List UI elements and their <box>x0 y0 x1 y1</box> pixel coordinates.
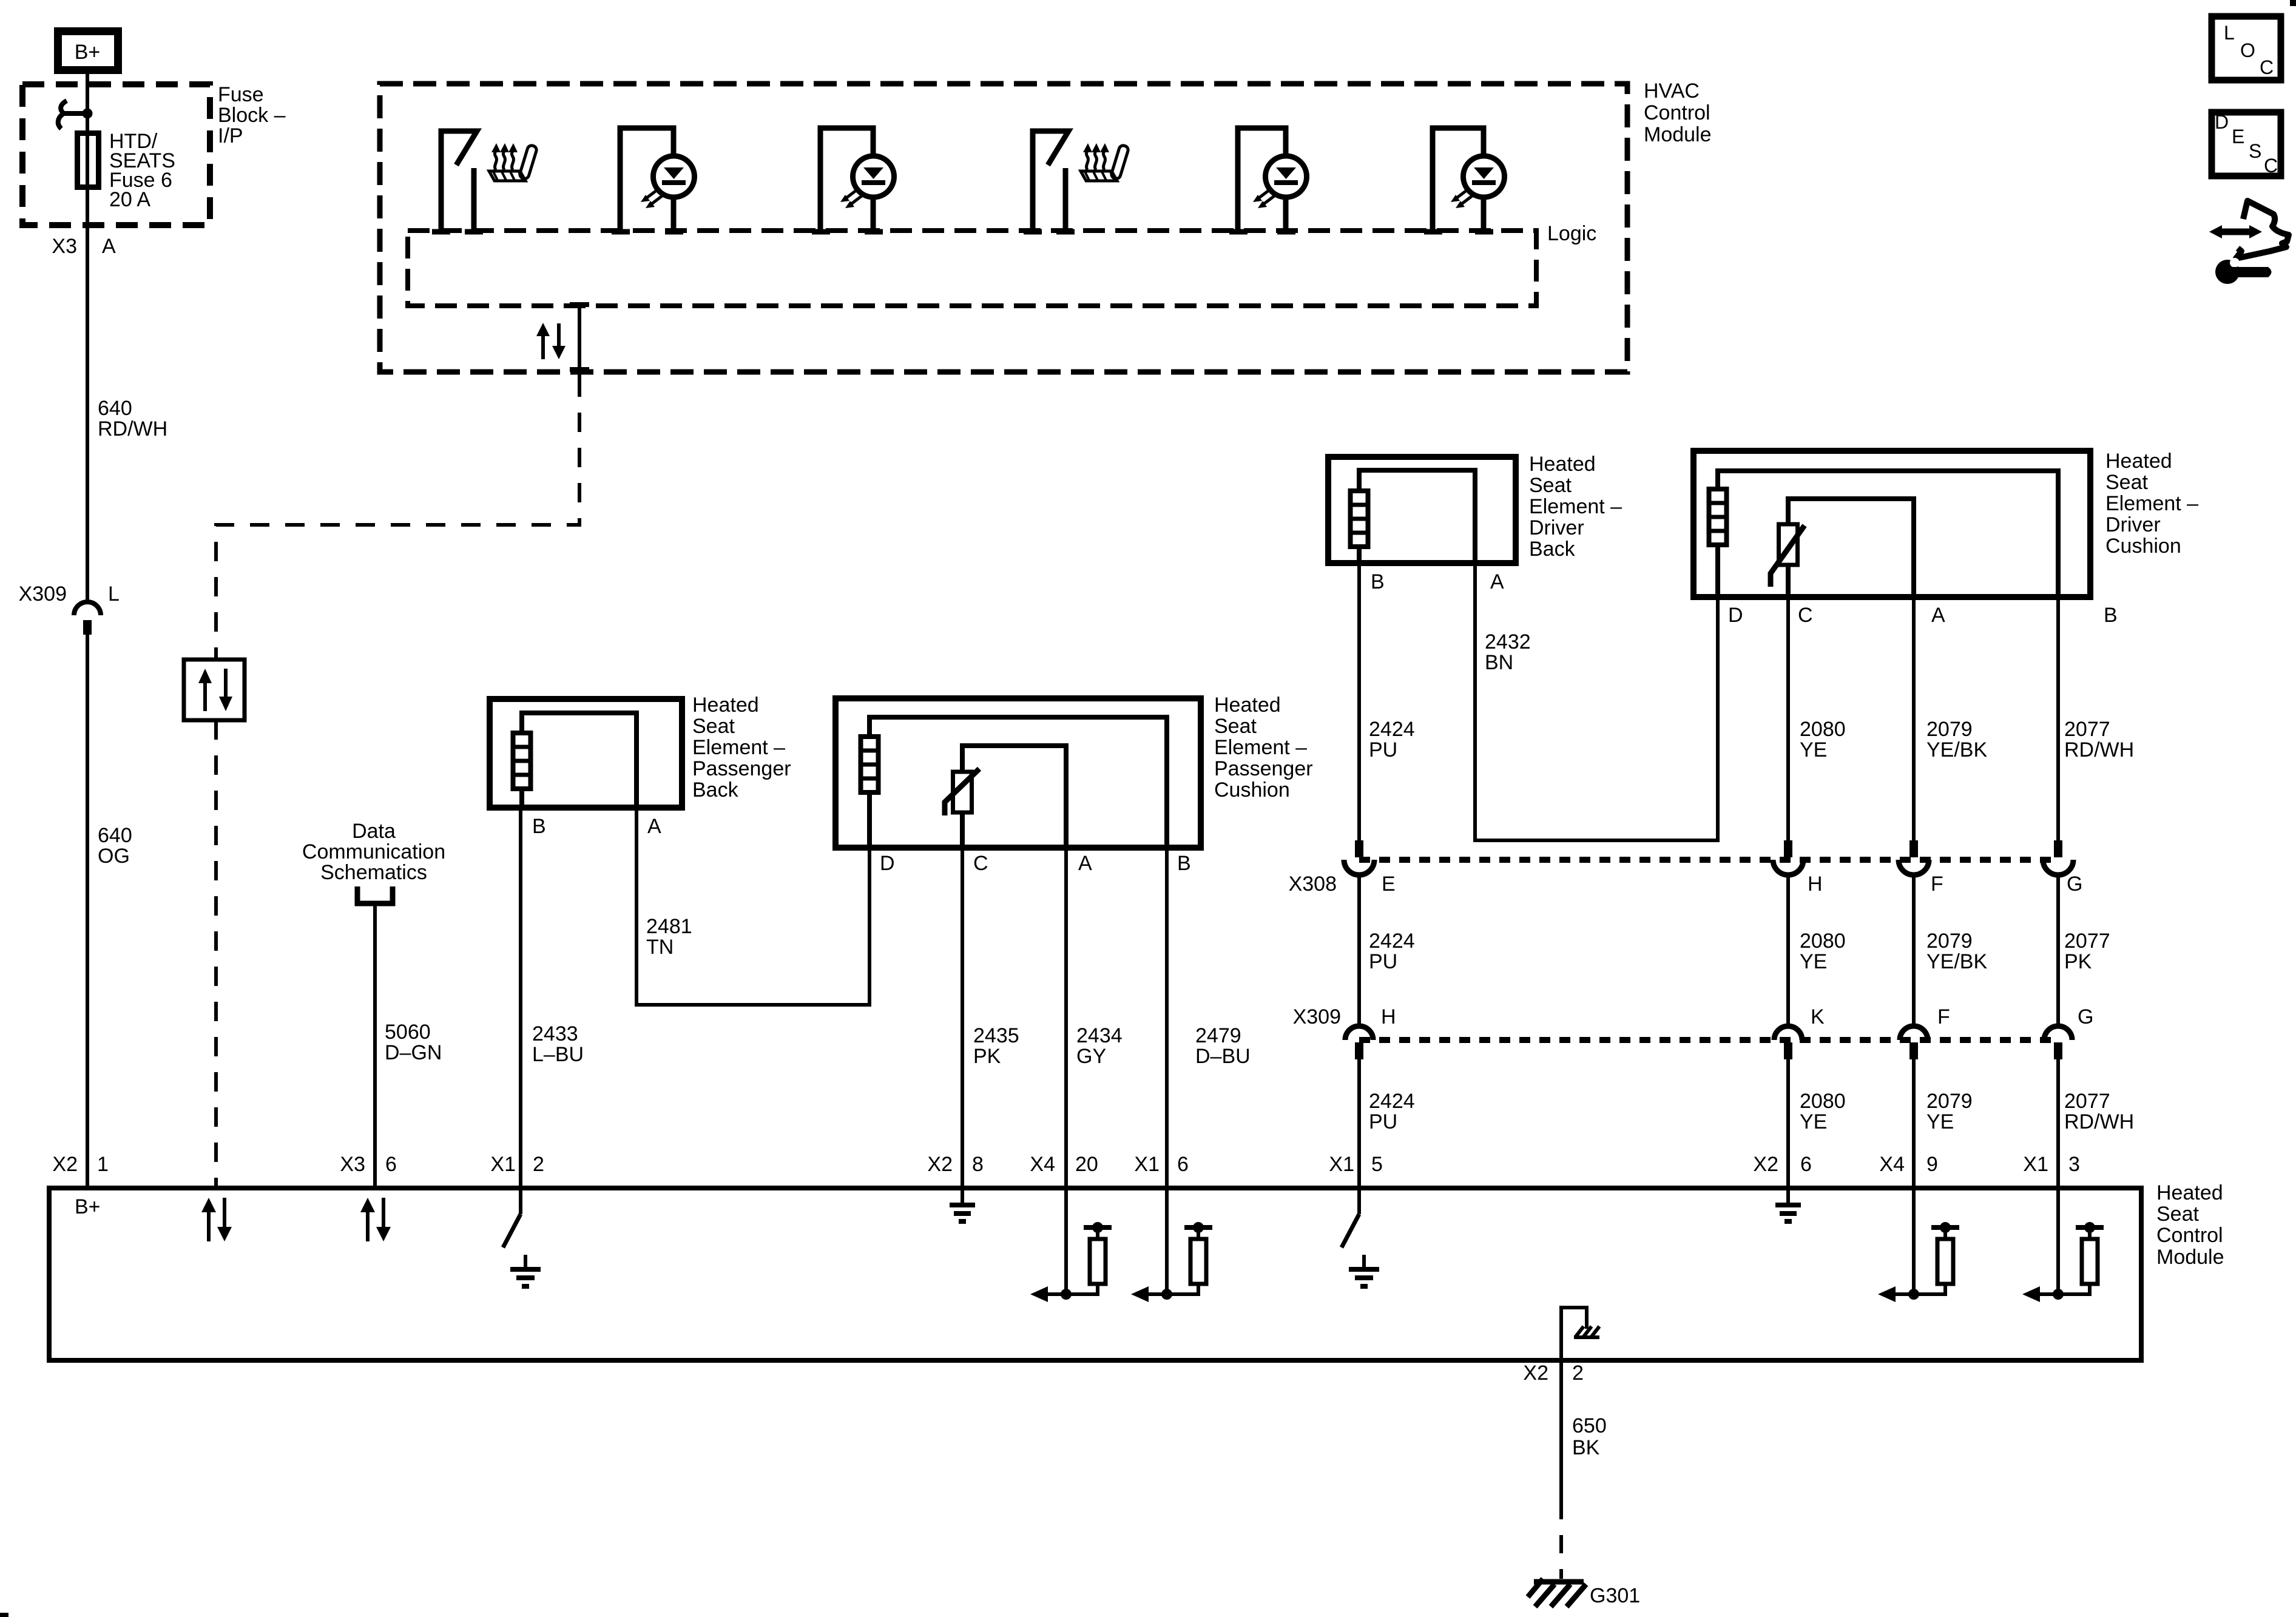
svg-text:2077: 2077 <box>2064 718 2110 741</box>
wire 2080 YE X309 to module <box>1786 1059 1790 1188</box>
heated seat control module box <box>49 1188 2141 1360</box>
svg-text:PU: PU <box>1369 950 1397 973</box>
svg-text:B+: B+ <box>75 41 101 64</box>
svg-text:X3: X3 <box>52 235 77 258</box>
serial data dashed wire to module <box>214 720 218 1188</box>
HVAC control module dashed box <box>380 84 1627 372</box>
svg-text:B+: B+ <box>75 1195 101 1218</box>
svg-text:640: 640 <box>98 824 132 847</box>
wire 2080 YE between X308 and X309 <box>1786 875 1790 1027</box>
clip symbol at fuse feed <box>58 101 86 129</box>
svg-text:5: 5 <box>1371 1153 1383 1176</box>
wire 2424 PU between X308 and X309 <box>1357 875 1361 1027</box>
svg-text:Heated: Heated <box>2105 450 2172 473</box>
wire 2424 PU pin B down to X308 <box>1357 563 1361 842</box>
svg-text:H: H <box>1381 1005 1396 1028</box>
svg-text:F: F <box>1931 873 1943 896</box>
DESC reference box <box>2212 111 2281 177</box>
heated seat element passenger cushion box <box>836 698 1201 848</box>
svg-text:2435: 2435 <box>973 1024 1019 1047</box>
internal chassis ground wire at X2-2 <box>1561 1308 1587 1360</box>
svg-text:2: 2 <box>533 1153 544 1176</box>
svg-text:X1: X1 <box>2023 1153 2048 1176</box>
svg-text:X2: X2 <box>52 1153 78 1176</box>
heater element driver cushion <box>1709 471 2058 597</box>
svg-text:X2: X2 <box>1523 1362 1548 1385</box>
svg-text:Seat: Seat <box>2105 471 2148 494</box>
tiny page mark top right <box>2290 0 2296 6</box>
svg-text:G: G <box>2078 1005 2093 1028</box>
fuse HTD/SEATS Fuse 6 20A <box>78 133 99 187</box>
svg-text:Back: Back <box>692 778 739 802</box>
svg-text:2079: 2079 <box>1926 718 1973 741</box>
data communication schematics bracket <box>357 886 393 903</box>
ground at X2-8 <box>950 1188 975 1221</box>
connector X308 dashed harness line <box>1359 857 2058 863</box>
connector X309 pin G <box>2044 1026 2072 1059</box>
svg-text:E: E <box>1382 873 1396 896</box>
svg-text:Heated: Heated <box>1529 453 1596 476</box>
svg-text:Module: Module <box>1644 123 1712 146</box>
ground G301 <box>1528 1579 1586 1607</box>
svg-text:Fuse: Fuse <box>218 83 264 106</box>
ground below X1-5 switch <box>1349 1255 1379 1286</box>
svg-text:C: C <box>2264 155 2278 177</box>
svg-text:X2: X2 <box>1753 1153 1778 1176</box>
svg-text:X3: X3 <box>340 1153 365 1176</box>
svg-text:YE: YE <box>1800 738 1827 761</box>
svg-text:X4: X4 <box>1879 1153 1905 1176</box>
svg-text:OG: OG <box>98 845 130 868</box>
wire 2433 L-BU pin B to module <box>519 808 522 1188</box>
indicator LED 3 <box>1229 128 1307 232</box>
svg-text:Element –: Element – <box>1214 736 1307 759</box>
indicator LED 4 <box>1424 128 1505 232</box>
wire 2077 RD/WH X309 to module <box>2056 1059 2060 1188</box>
svg-text:2080: 2080 <box>1800 718 1846 741</box>
svg-text:640: 640 <box>98 397 132 420</box>
svg-text:X1: X1 <box>1329 1153 1354 1176</box>
svg-text:BN: BN <box>1485 651 1513 674</box>
svg-text:Block –: Block – <box>218 104 286 127</box>
svg-text:YE: YE <box>1926 1110 1954 1133</box>
svg-text:2433: 2433 <box>532 1022 578 1045</box>
pull-up resistor with output arrow at X1-3 <box>2022 1188 2104 1302</box>
serial data arrows at X2-1 rail <box>201 1198 232 1241</box>
wire 650 BK from X2-2 <box>1559 1360 1563 1501</box>
svg-text:Seat: Seat <box>692 715 735 738</box>
svg-text:X1: X1 <box>1134 1153 1160 1176</box>
serial data symbol box on class-2 line <box>184 660 245 720</box>
svg-text:PK: PK <box>2064 950 2092 973</box>
heated seat icon 2 <box>1081 143 1129 181</box>
svg-text:Driver: Driver <box>2105 513 2161 536</box>
switch to ground at X1-5 <box>1342 1188 1359 1247</box>
svg-text:PU: PU <box>1369 738 1397 761</box>
svg-text:Cushion: Cushion <box>1214 778 1290 802</box>
heated seat element driver cushion box <box>1693 451 2090 597</box>
svg-text:Element –: Element – <box>2105 492 2198 515</box>
wire 640 OG down to module <box>86 635 89 1188</box>
svg-text:Element –: Element – <box>692 736 785 759</box>
wire 2077 PK between X308 and X309 <box>2056 875 2060 1027</box>
wire 2435 PK pin C to module <box>961 848 964 1188</box>
connector X309 pin H <box>1345 1026 1373 1059</box>
serial data wire from logic box <box>216 304 589 660</box>
svg-text:Passenger: Passenger <box>692 757 791 780</box>
heated seat icon 1 <box>489 143 538 181</box>
svg-text:9: 9 <box>1926 1153 1938 1176</box>
svg-text:Seat: Seat <box>2156 1203 2199 1226</box>
svg-text:I/P: I/P <box>218 124 243 147</box>
svg-text:6: 6 <box>1800 1153 1812 1176</box>
svg-text:650: 650 <box>1572 1414 1607 1437</box>
heater element passenger cushion <box>860 717 1167 848</box>
svg-text:3: 3 <box>2068 1153 2080 1176</box>
switch SW1 passenger heated seat switch <box>432 131 483 232</box>
wire 2434 GY pin A to module <box>1064 848 1068 1188</box>
serial data arrows inside HVAC <box>536 323 566 359</box>
svg-text:2424: 2424 <box>1369 930 1415 953</box>
svg-text:O: O <box>2240 39 2255 61</box>
svg-text:RD/WH: RD/WH <box>2064 1110 2134 1133</box>
fuse block I/P dashed box <box>22 84 210 225</box>
svg-text:A: A <box>102 235 116 258</box>
svg-text:D: D <box>880 852 895 875</box>
svg-text:PU: PU <box>1369 1110 1397 1133</box>
svg-text:Element –: Element – <box>1529 495 1622 518</box>
heated seat element driver back box <box>1328 457 1516 563</box>
wire 5060 D-GN <box>373 903 377 1188</box>
svg-text:X4: X4 <box>1030 1153 1055 1176</box>
svg-text:Back: Back <box>1529 538 1576 561</box>
diagnostic tool icon double arrow <box>2209 225 2262 238</box>
svg-text:2077: 2077 <box>2064 930 2110 953</box>
svg-text:B: B <box>1177 852 1191 875</box>
svg-text:1: 1 <box>97 1153 109 1176</box>
svg-text:RD/WH: RD/WH <box>98 417 167 441</box>
svg-text:Control: Control <box>2156 1224 2223 1247</box>
svg-text:L: L <box>2224 22 2235 44</box>
svg-text:Seat: Seat <box>1214 715 1257 738</box>
battery feed B+ box <box>58 32 118 70</box>
svg-text:2077: 2077 <box>2064 1090 2110 1113</box>
wire 2481 TN pin A to cushion pin D <box>636 808 869 1005</box>
wire 2432 BN pin A to driver cushion pin D <box>1475 563 1718 840</box>
svg-text:2434: 2434 <box>1076 1024 1123 1047</box>
svg-text:2481: 2481 <box>646 915 692 938</box>
svg-text:L–BU: L–BU <box>532 1043 584 1066</box>
svg-text:G: G <box>2067 873 2082 896</box>
svg-text:BK: BK <box>1572 1436 1600 1459</box>
pull-up resistor with output arrow at X4-9 <box>1878 1188 1959 1302</box>
svg-text:A: A <box>647 815 661 838</box>
svg-text:2: 2 <box>1572 1362 1584 1385</box>
heater element passenger back <box>513 713 636 808</box>
diagnostic tool icon wrench <box>2215 258 2272 284</box>
ground below X1-2 switch <box>510 1255 541 1286</box>
svg-text:YE: YE <box>1800 950 1827 973</box>
chassis ground symbol inside module <box>1574 1326 1599 1337</box>
svg-text:2080: 2080 <box>1800 930 1846 953</box>
svg-text:Passenger: Passenger <box>1214 757 1313 780</box>
svg-text:2479: 2479 <box>1195 1024 1241 1047</box>
svg-text:Heated: Heated <box>2156 1181 2223 1204</box>
logic dashed box <box>408 231 1536 306</box>
svg-text:20: 20 <box>1075 1153 1098 1176</box>
svg-text:X309: X309 <box>19 582 67 606</box>
svg-text:A: A <box>1931 604 1945 627</box>
svg-text:C: C <box>1798 604 1813 627</box>
indicator LED 1 <box>612 128 695 232</box>
heater element driver back <box>1350 470 1475 563</box>
wire 2079 YE/BK pin A down to X308 <box>1912 597 1916 842</box>
svg-text:Seat: Seat <box>1529 474 1572 497</box>
junction dot at fuse feed <box>83 109 93 119</box>
svg-text:Communication: Communication <box>302 840 445 863</box>
connector X309 dashed harness line <box>1359 1037 2058 1043</box>
svg-text:G301: G301 <box>1590 1584 1640 1607</box>
connector X309 pin L inline connector <box>74 602 101 635</box>
connector X309 pin K <box>1774 1026 1802 1059</box>
svg-text:GY: GY <box>1076 1045 1106 1068</box>
svg-text:8: 8 <box>972 1153 984 1176</box>
svg-text:20 A: 20 A <box>109 188 150 211</box>
svg-text:D–GN: D–GN <box>385 1041 442 1064</box>
diagnostic tool icon outline pointer <box>2236 201 2289 258</box>
svg-text:X309: X309 <box>1293 1005 1341 1028</box>
svg-text:PK: PK <box>973 1045 1001 1068</box>
heated seat element passenger back box <box>490 699 682 808</box>
svg-text:D–BU: D–BU <box>1195 1045 1251 1068</box>
wire 2479 D-BU pin B to module <box>1165 848 1169 1188</box>
indicator LED 2 <box>812 128 894 232</box>
thermistor driver cushion <box>1771 499 1914 597</box>
svg-text:C: C <box>973 852 988 875</box>
connector X309 pin F <box>1900 1026 1928 1059</box>
connector X308 pin H <box>1773 840 1803 875</box>
svg-text:RD/WH: RD/WH <box>2064 738 2134 761</box>
wire 2079 YE X309 to module <box>1912 1059 1916 1188</box>
wire 2079 YE/BK between X308 and X309 <box>1912 875 1916 1027</box>
svg-text:2079: 2079 <box>1926 930 1973 953</box>
pull-up resistor with output arrow at X4-20 <box>1030 1188 1112 1302</box>
svg-text:X2: X2 <box>927 1153 953 1176</box>
svg-text:Schematics: Schematics <box>320 861 427 884</box>
svg-text:YE: YE <box>1800 1110 1827 1133</box>
svg-text:X308: X308 <box>1289 873 1337 896</box>
LOC reference box <box>2212 16 2281 80</box>
svg-text:L: L <box>108 582 120 606</box>
switch SW2 driver heated seat switch <box>1024 131 1075 232</box>
svg-text:HVAC: HVAC <box>1644 79 1700 103</box>
svg-text:C: C <box>2260 56 2274 78</box>
svg-text:2079: 2079 <box>1926 1090 1973 1113</box>
connector X308 pin E <box>1344 840 1374 875</box>
svg-text:Control: Control <box>1644 101 1710 124</box>
svg-text:Module: Module <box>2156 1246 2224 1269</box>
tiny page mark bottom left <box>0 1613 8 1617</box>
svg-text:6: 6 <box>1177 1153 1189 1176</box>
svg-text:2424: 2424 <box>1369 1090 1415 1113</box>
svg-text:B: B <box>1371 570 1385 593</box>
svg-text:Driver: Driver <box>1529 516 1584 539</box>
svg-text:5060: 5060 <box>385 1021 431 1044</box>
svg-text:D: D <box>2215 111 2229 133</box>
svg-text:Heated: Heated <box>1214 694 1281 717</box>
serial data arrows at X3-6 <box>360 1198 391 1241</box>
svg-text:YE/BK: YE/BK <box>1926 950 1987 973</box>
svg-text:D: D <box>1728 604 1743 627</box>
connector X308 pin F <box>1899 840 1929 875</box>
svg-text:K: K <box>1811 1005 1825 1028</box>
svg-text:Logic: Logic <box>1547 222 1596 245</box>
connector X308 pin G <box>2043 840 2073 875</box>
svg-text:2080: 2080 <box>1800 1090 1846 1113</box>
svg-text:Data: Data <box>352 820 396 843</box>
wire 2080 YE pin C down to X308 <box>1786 597 1790 842</box>
thermistor passenger cushion <box>945 746 1066 848</box>
wire 2424 PU X309 to module <box>1357 1059 1361 1188</box>
svg-text:A: A <box>1078 852 1092 875</box>
svg-text:Heated: Heated <box>692 694 759 717</box>
pull-up resistor with output arrow at X1-6 <box>1131 1188 1212 1302</box>
svg-text:E: E <box>2232 126 2244 147</box>
svg-text:TN: TN <box>646 936 674 959</box>
svg-text:X1: X1 <box>490 1153 516 1176</box>
svg-text:Cushion: Cushion <box>2105 535 2181 558</box>
switch to ground at X1-2 <box>503 1188 521 1247</box>
wire 640 RD/WH from B+ through fuse <box>86 74 89 602</box>
svg-text:H: H <box>1808 873 1823 896</box>
svg-text:YE/BK: YE/BK <box>1926 738 1987 761</box>
svg-text:A: A <box>1490 570 1504 593</box>
svg-text:S: S <box>2249 140 2261 162</box>
wire 2077 RD/WH pin B down to X308 <box>2056 597 2060 842</box>
svg-text:6: 6 <box>385 1153 397 1176</box>
svg-text:F: F <box>1937 1005 1950 1028</box>
svg-text:2432: 2432 <box>1485 630 1531 653</box>
svg-text:2424: 2424 <box>1369 718 1415 741</box>
svg-text:B: B <box>532 815 546 838</box>
ground at X2-6 <box>1775 1188 1801 1221</box>
svg-text:B: B <box>2104 604 2118 627</box>
